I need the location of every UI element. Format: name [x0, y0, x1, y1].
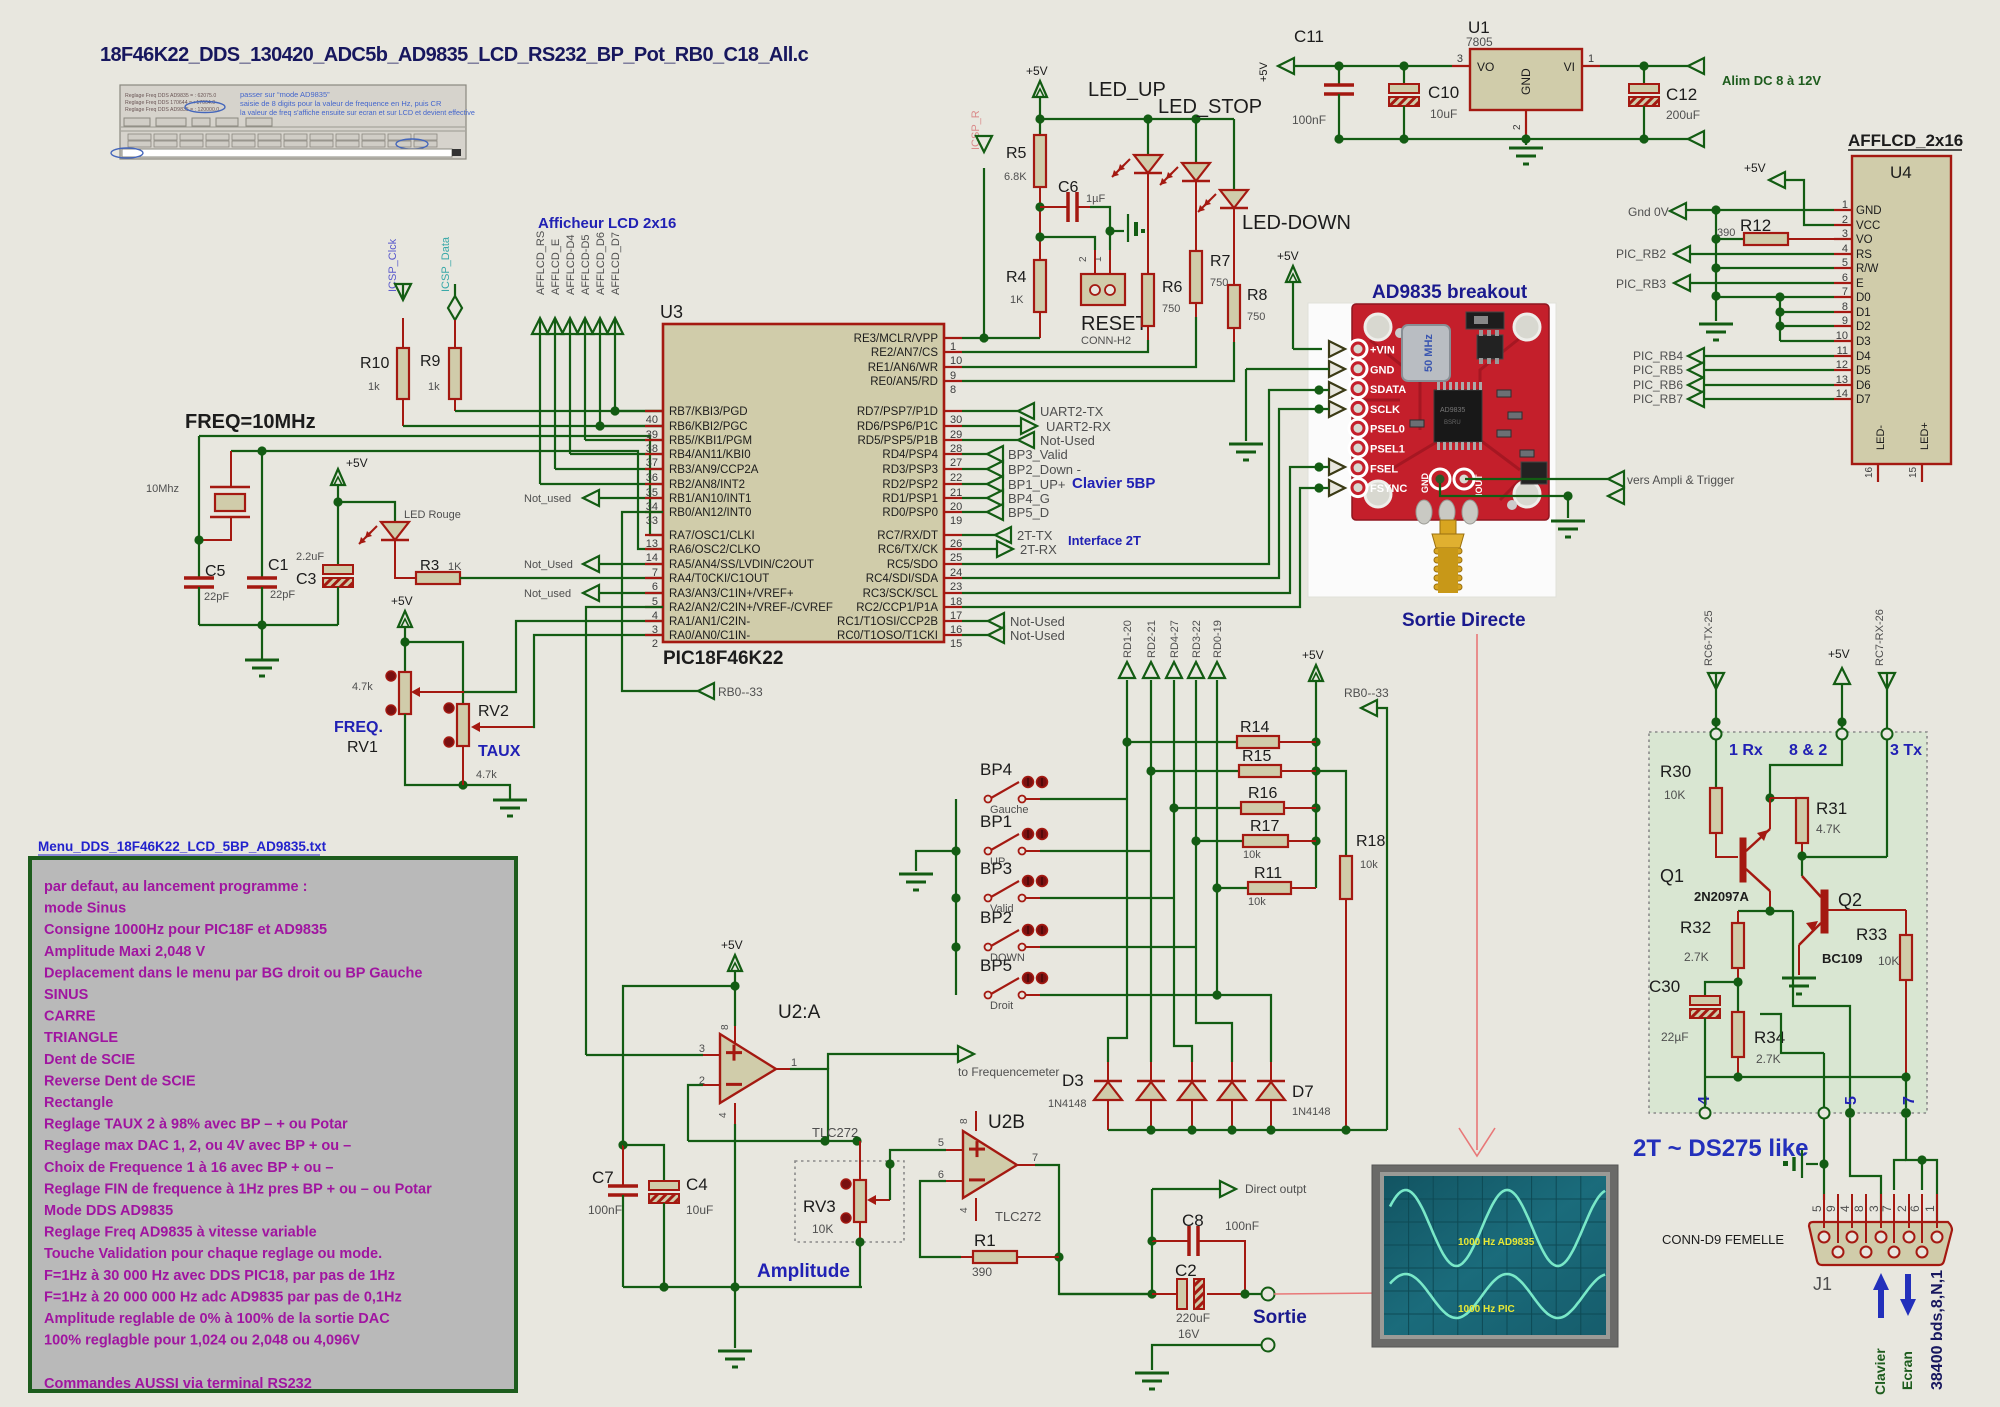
- svg-text:4.7k: 4.7k: [476, 769, 497, 781]
- svg-text:RS: RS: [1856, 249, 1872, 261]
- svg-text:11: 11: [1837, 345, 1848, 357]
- terminal Not_Used RA5: [524, 556, 663, 572]
- pin 3: [1452, 53, 1470, 66]
- wire: [1035, 97, 1044, 135]
- svg-text:RD0-19: RD0-19: [1212, 620, 1224, 658]
- svg-text:RA4/T0CKI/C1OUT: RA4/T0CKI/C1OUT: [669, 573, 769, 585]
- wire RESET pin1: [1093, 231, 1110, 274]
- wire to D3: [1108, 799, 1127, 1062]
- svg-text:2.7K: 2.7K: [1684, 950, 1709, 964]
- svg-text:R10: R10: [360, 355, 389, 372]
- svg-text:RC2/CCP1/P1A: RC2/CCP1/P1A: [856, 602, 938, 614]
- svg-text:R11: R11: [1254, 865, 1282, 882]
- wire pin3: [586, 1043, 720, 1055]
- wire: [454, 320, 456, 411]
- button BP4: [980, 760, 1127, 816]
- svg-text:5: 5: [1843, 1096, 1860, 1105]
- wire RV3 bottom: [855, 1222, 864, 1287]
- label AFFLCD_D6: [595, 232, 607, 295]
- potentiometer RV1 4.7k: [352, 671, 411, 715]
- svg-text:RA2/AN2/C2IN+/VREF-/CVREF: RA2/AN2/C2IN+/VREF-/CVREF: [669, 602, 833, 614]
- op-amp U2:A: [720, 1034, 776, 1103]
- svg-text:1K: 1K: [448, 561, 462, 573]
- wire VI: [1600, 61, 1688, 70]
- wire: [1644, 138, 1688, 140]
- wire: [1733, 968, 1742, 987]
- svg-text:Commandes AUSSI via terminal R: Commandes AUSSI via terminal RS232: [44, 1376, 312, 1392]
- svg-text:R30: R30: [1660, 762, 1691, 781]
- wire: [194, 436, 203, 578]
- wire pin4: [959, 1198, 976, 1221]
- svg-text:100nF: 100nF: [588, 1203, 622, 1217]
- svg-text:RC4/SDI/SDA: RC4/SDI/SDA: [866, 573, 939, 585]
- svg-text:PIC_RB6: PIC_RB6: [1633, 378, 1683, 392]
- diode at x=1232: [1218, 1062, 1246, 1130]
- capacitor C5 22pF: [184, 563, 229, 603]
- terminal ICSP_Clck: [395, 284, 411, 300]
- svg-text:BP2: BP2: [980, 908, 1012, 927]
- wiper RV1: [411, 687, 464, 697]
- svg-text:4: 4: [959, 1207, 970, 1213]
- PIC U3 PIC18F46K22 body: [663, 324, 944, 669]
- svg-text:Mode DDS AD9835: Mode DDS AD9835: [44, 1203, 173, 1219]
- wire R9 to RB7: [455, 406, 663, 415]
- arrow GND: [1246, 361, 1345, 377]
- svg-text:PSEL1: PSEL1: [1370, 444, 1405, 456]
- power +5V: [1026, 64, 1048, 97]
- svg-text:AFFLCD_D7: AFFLCD_D7: [610, 232, 622, 295]
- svg-text:Q2: Q2: [1838, 890, 1862, 910]
- svg-text:RD7/PSP7/P1D: RD7/PSP7/P1D: [857, 406, 938, 418]
- arrow RD0-19: [1209, 662, 1225, 678]
- svg-text:R18: R18: [1356, 833, 1385, 850]
- wire +5V to C7: [623, 986, 735, 1145]
- svg-text:J1: J1: [1813, 1274, 1832, 1294]
- label LED-DOWN: [1242, 212, 1351, 234]
- arrow SDATA wire from RC5: [962, 382, 1345, 564]
- wire: [1240, 1289, 1262, 1298]
- wire: [1737, 1057, 1739, 1077]
- wire LED rail: [1040, 114, 1234, 123]
- svg-text:1000 Hz AD9835: 1000 Hz AD9835: [1458, 1237, 1535, 1248]
- wire: [1233, 208, 1235, 285]
- svg-text:Sortie: Sortie: [1253, 1307, 1307, 1328]
- terminal to Frequencemeter: [958, 1046, 1059, 1079]
- terminal RC7-RX-26: [1879, 673, 1895, 728]
- wire R18 bottom: [1345, 899, 1347, 1130]
- svg-text:vers Ampli & Trigger: vers Ampli & Trigger: [1627, 473, 1734, 487]
- svg-text:R5: R5: [1006, 145, 1027, 162]
- svg-text:RC6-TX-25: RC6-TX-25: [1703, 610, 1715, 666]
- potentiometer RV3 10K: [803, 1179, 866, 1236]
- label Sortie Directe: [1402, 610, 1526, 631]
- svg-text:7805: 7805: [1466, 35, 1493, 49]
- port circle 4: [1700, 1077, 1711, 1119]
- svg-text:RA5/AN4/SS/LVDIN/C2OUT: RA5/AN4/SS/LVDIN/C2OUT: [669, 559, 814, 571]
- wire to frequencemeter: [828, 1054, 958, 1069]
- svg-text:7: 7: [1901, 1096, 1918, 1105]
- PIC U3 left pins RB/RA: [645, 406, 833, 650]
- svg-text:D7: D7: [1856, 394, 1871, 406]
- svg-text:LED-: LED-: [1875, 425, 1887, 450]
- wire +VIN: [1293, 282, 1322, 349]
- wire wiper to U2B+: [885, 1150, 963, 1200]
- terminal ICSP_R: [976, 136, 992, 338]
- wire: [1705, 982, 1738, 996]
- wire R30 to Q1 base: [1716, 833, 1738, 857]
- capacitor C12 200uF: [1629, 84, 1700, 122]
- svg-text:Choix de Frequence 1 à 16 ave: Choix de Frequence 1 à 16 avec BP + ou –: [44, 1160, 333, 1176]
- svg-text:100nF: 100nF: [1292, 113, 1326, 127]
- PIC U3 right pins RE/RD/RC: [837, 333, 962, 650]
- svg-text:RC7/RX/DT: RC7/RX/DT: [877, 530, 938, 542]
- svg-text:RV2: RV2: [478, 703, 509, 720]
- svg-text:27: 27: [950, 457, 962, 469]
- svg-text:RC1/T1OSI/CCP2B: RC1/T1OSI/CCP2B: [837, 616, 938, 628]
- label AFFLCD_E: [550, 239, 562, 295]
- wire 8&2 to node: [1770, 740, 1842, 798]
- label port 7: [1901, 1096, 1918, 1105]
- terminal 2T-RX: [962, 541, 1057, 557]
- label TAUX 4.7k: [476, 743, 521, 781]
- svg-text:RC7-RX-26: RC7-RX-26: [1874, 609, 1886, 666]
- svg-text:passer sur “mode AD9835”: passer sur “mode AD9835”: [240, 90, 330, 99]
- svg-text:15: 15: [950, 638, 962, 650]
- svg-text:RA3/AN3/C1IN+/VREF+: RA3/AN3/C1IN+/VREF+: [669, 588, 794, 600]
- svg-text:5: 5: [1842, 257, 1848, 269]
- wire col RD3: [1191, 680, 1200, 947]
- power +5V 2T: [1834, 668, 1850, 728]
- resistor R15: [1151, 748, 1316, 777]
- svg-text:C3: C3: [296, 571, 317, 588]
- svg-text:Rectangle: Rectangle: [44, 1095, 113, 1111]
- wire R10 to RB6: [403, 421, 663, 430]
- svg-text:D4: D4: [1856, 351, 1871, 363]
- svg-text:Ecran: Ecran: [1899, 1351, 1915, 1390]
- svg-text:2: 2: [652, 638, 658, 650]
- resistor R33 10K: [1856, 925, 1912, 980]
- LCD connector U4 body: [1852, 156, 1951, 464]
- wire +5V pullup column: [1311, 681, 1320, 888]
- svg-text:FSEL: FSEL: [1370, 463, 1398, 475]
- wire: [261, 451, 263, 578]
- svg-text:Q1: Q1: [1660, 866, 1684, 886]
- wire: [1338, 66, 1340, 85]
- svg-text:D5: D5: [1856, 365, 1871, 377]
- terminal PIC_RB3 to E: [1616, 275, 1834, 291]
- wire 3Tx column: [1886, 740, 1888, 857]
- svg-text:C8: C8: [1182, 1211, 1204, 1230]
- terminal Not_used RB1: [524, 490, 663, 506]
- svg-text:100% reglagble pour 1,024 ou 2: 100% reglagble pour 1,024 ou 2,048 ou 4,…: [44, 1333, 360, 1349]
- resistor R8 750: [1228, 285, 1268, 328]
- svg-text:C7: C7: [592, 1168, 614, 1187]
- terminal RB0--33 riser: [1361, 700, 1387, 1130]
- wire: [1195, 181, 1197, 251]
- wire bottom rail: [623, 1282, 862, 1291]
- wire AFFLCD_D7 to PIC: [607, 318, 663, 411]
- svg-text:4: 4: [1838, 1205, 1852, 1212]
- label Sortie: [1253, 1307, 1307, 1328]
- J1 pin leads: [1810, 1194, 1937, 1243]
- label ICSP_Clck: [387, 238, 399, 292]
- svg-text:PIC_RB7: PIC_RB7: [1633, 392, 1683, 406]
- svg-text:LED+: LED+: [1919, 422, 1931, 450]
- svg-text:RB0/AN12/INT0: RB0/AN12/INT0: [669, 507, 751, 519]
- svg-text:Not-Used: Not-Used: [1010, 614, 1065, 629]
- svg-text:BP4: BP4: [980, 760, 1012, 779]
- svg-text:D1: D1: [1856, 307, 1871, 319]
- svg-text:6: 6: [938, 1169, 944, 1181]
- resistor R5 6.8K: [1004, 135, 1046, 187]
- svg-text:C30: C30: [1649, 977, 1680, 996]
- label AFFLCD-D4: [565, 234, 577, 295]
- svg-text:4: 4: [718, 1112, 729, 1118]
- svg-text:14: 14: [1836, 388, 1848, 400]
- svg-text:par defaut, au lancement progr: par defaut, au lancement programme :: [44, 879, 307, 895]
- svg-text:RA0/AN0/C1IN-: RA0/AN0/C1IN-: [669, 630, 750, 642]
- wire R18 top: [1316, 771, 1346, 856]
- svg-text:R15: R15: [1242, 748, 1271, 765]
- ground: [493, 800, 527, 816]
- svg-text:22pF: 22pF: [270, 589, 295, 601]
- wire to D4: [1150, 851, 1152, 1062]
- LED D1 rouge: [359, 509, 461, 544]
- wire: [1905, 910, 1907, 935]
- arrow +VIN: [1329, 341, 1345, 357]
- power +5V: [331, 456, 368, 485]
- svg-text:TLC272: TLC272: [812, 1125, 858, 1140]
- svg-text:U3: U3: [660, 302, 683, 322]
- svg-text:LED_STOP: LED_STOP: [1158, 96, 1262, 118]
- button BP3: [980, 859, 1174, 915]
- svg-text:6: 6: [652, 581, 658, 593]
- svg-text:Dent de SCIE: Dent de SCIE: [44, 1052, 135, 1068]
- label Q1 2N2097A: [1660, 866, 1750, 904]
- label R12 390: [1717, 216, 1771, 239]
- svg-text:3 Tx: 3 Tx: [1890, 742, 1922, 759]
- terminal screenshot: [111, 85, 475, 159]
- svg-text:25: 25: [950, 552, 962, 564]
- label D7: [1292, 1082, 1331, 1118]
- svg-text:Amplitude Maxi 2,048 V: Amplitude Maxi 2,048 V: [44, 944, 205, 960]
- svg-text:10Mhz: 10Mhz: [146, 483, 179, 495]
- label Q2 BC109: [1822, 890, 1862, 966]
- svg-text:+5V: +5V: [391, 594, 413, 608]
- svg-text:+5V: +5V: [1026, 64, 1048, 78]
- label 2T ~ DS275 like: [1633, 1135, 1808, 1162]
- wire RB0 to terminal: [622, 512, 698, 691]
- wire D1 D2 D3: [1780, 312, 1834, 341]
- wire to D5: [1174, 898, 1192, 1062]
- wire Q1 emitter node: [1738, 906, 1793, 915]
- wire: [1233, 119, 1235, 190]
- svg-text:RE3/MCLR/VPP: RE3/MCLR/VPP: [854, 333, 939, 345]
- wire R6 to RE2: [962, 326, 1148, 352]
- wire to ground: [916, 851, 956, 871]
- wire 7 to pin1: [1906, 1118, 1937, 1228]
- power +5V: [721, 938, 743, 971]
- terminal GND out: [1608, 488, 1624, 504]
- wire RV3 top: [859, 1141, 861, 1180]
- svg-text:RB6/KBI2/PGC: RB6/KBI2/PGC: [669, 421, 748, 433]
- svg-text:E: E: [1856, 278, 1864, 290]
- wire pin1: [776, 1057, 797, 1069]
- port circle 3Tx: [1882, 729, 1893, 740]
- svg-text:4.7k: 4.7k: [352, 681, 373, 693]
- capacitor C1 22pF: [247, 557, 295, 601]
- svg-text:AD9835: AD9835: [1440, 407, 1465, 414]
- svg-text:33: 33: [646, 515, 658, 527]
- capacitor C30 22uF: [1649, 977, 1720, 1044]
- terminal Not-Used RD5: [962, 432, 1095, 448]
- svg-text:PIC_RB3: PIC_RB3: [1616, 277, 1666, 291]
- svg-text:RD1-20: RD1-20: [1122, 620, 1134, 658]
- diode at x=1271: [1257, 1062, 1285, 1130]
- svg-text:BP2_Down -: BP2_Down -: [1008, 462, 1081, 477]
- svg-text:RB1/AN10/INT1: RB1/AN10/INT1: [669, 493, 751, 505]
- svg-text:FREQ=10MHz: FREQ=10MHz: [185, 411, 316, 433]
- svg-text:10K: 10K: [1664, 788, 1685, 802]
- svg-text:1N4148: 1N4148: [1292, 1106, 1331, 1118]
- svg-text:la valeur de freq s'affiche en: la valeur de freq s'affiche ensuite sur …: [240, 108, 475, 117]
- svg-text:Not-Used: Not-Used: [1040, 433, 1095, 448]
- svg-text:PIC18F46K22: PIC18F46K22: [663, 648, 783, 669]
- svg-text:14: 14: [646, 552, 658, 564]
- svg-text:AFFLCD_E: AFFLCD_E: [550, 239, 562, 295]
- wire gnd to pin5: [1819, 1118, 1828, 1200]
- svg-text:Amplitude: Amplitude: [757, 1261, 850, 1282]
- label RC7-RX-26: [1874, 609, 1886, 666]
- svg-text:C12: C12: [1666, 85, 1697, 104]
- junction: [257, 446, 266, 455]
- wire: [1770, 797, 1802, 799]
- wire: [1403, 66, 1405, 84]
- svg-text:2N2097A: 2N2097A: [1694, 889, 1750, 904]
- svg-text:VO: VO: [1856, 234, 1873, 246]
- wire RV1 bottom: [405, 714, 510, 800]
- svg-text:BP1: BP1: [980, 812, 1012, 831]
- svg-text:RA7/OSC1/CLKI: RA7/OSC1/CLKI: [669, 530, 755, 542]
- label RD0-19: [1212, 620, 1224, 658]
- svg-text:AD9835 breakout: AD9835 breakout: [1372, 282, 1528, 303]
- svg-text:Interface 2T: Interface 2T: [1068, 533, 1141, 548]
- svg-text:C10: C10: [1428, 83, 1459, 102]
- svg-text:R7: R7: [1210, 253, 1231, 270]
- svg-text:1: 1: [1588, 53, 1594, 65]
- svg-text:C11: C11: [1294, 27, 1324, 46]
- wire gnd exit: [1760, 1014, 1824, 1108]
- svg-text:U2B: U2B: [988, 1112, 1025, 1133]
- svg-text:LED Rouge: LED Rouge: [404, 509, 461, 521]
- svg-text:2T-RX: 2T-RX: [1020, 542, 1057, 557]
- resistor R10: [360, 348, 409, 399]
- svg-text:8 & 2: 8 & 2: [1789, 742, 1827, 759]
- dotted box RV3: [795, 1161, 904, 1242]
- arrow RD2-21: [1143, 662, 1159, 678]
- svg-text:RA6/OSC2/CLKO: RA6/OSC2/CLKO: [669, 544, 760, 556]
- svg-text:VO: VO: [1477, 60, 1494, 74]
- svg-text:TLC272: TLC272: [995, 1209, 1041, 1224]
- menu text lines: [44, 879, 432, 1392]
- svg-text:1K: 1K: [1010, 294, 1024, 306]
- wire: [1643, 106, 1645, 139]
- resistor R7 750: [1190, 251, 1231, 303]
- svg-text:2T-TX: 2T-TX: [1017, 528, 1053, 543]
- capacitor C10 10uF: [1389, 83, 1459, 121]
- svg-text:C6: C6: [1058, 179, 1079, 196]
- svg-text:Not_Used: Not_Used: [524, 559, 573, 571]
- terminal Sortie gnd: [1152, 1339, 1275, 1371]
- svg-text:2: 2: [1842, 214, 1848, 226]
- svg-text:RE0/AN5/RD: RE0/AN5/RD: [870, 376, 938, 388]
- wire: [622, 1195, 624, 1287]
- svg-text:PIC_RB2: PIC_RB2: [1616, 247, 1666, 261]
- wire MCLR: [962, 333, 1040, 342]
- svg-text:RC0/T1OSO/T1CKI: RC0/T1OSO/T1CKI: [837, 630, 938, 642]
- svg-text:10k: 10k: [1360, 859, 1378, 871]
- svg-text:R9: R9: [420, 353, 441, 370]
- wire R31 node: [1802, 856, 1887, 858]
- button BP1: [980, 812, 1151, 868]
- port 7: [1901, 1108, 1911, 1118]
- svg-text:RV3: RV3: [803, 1197, 836, 1216]
- svg-text:GND: GND: [1370, 364, 1395, 376]
- button BP2: [980, 908, 1196, 964]
- terminal PIC_RB4: [1633, 348, 1834, 364]
- arrow Clavier: [1872, 1273, 1889, 1395]
- svg-text:19: 19: [950, 515, 962, 527]
- svg-text:SDATA: SDATA: [1370, 384, 1406, 396]
- svg-text:+5V: +5V: [1258, 61, 1270, 82]
- ground: [1782, 978, 1816, 994]
- svg-text:8: 8: [1852, 1205, 1866, 1212]
- svg-text:FREQ.: FREQ.: [334, 719, 383, 736]
- resistor R12: [1716, 233, 1834, 245]
- svg-text:R4: R4: [1006, 269, 1027, 286]
- svg-text:1000 Hz PIC: 1000 Hz PIC: [1458, 1304, 1515, 1315]
- wire to D7: [1212, 990, 1271, 1062]
- svg-text:Not_used: Not_used: [524, 588, 571, 600]
- wire: [1035, 187, 1044, 260]
- wire GND: [1686, 205, 1834, 214]
- svg-text:4.7K: 4.7K: [1816, 822, 1841, 836]
- svg-text:8: 8: [959, 1118, 970, 1124]
- wire VO rail: [1294, 61, 1452, 70]
- arrow RD1-20: [1119, 662, 1135, 678]
- svg-text:+5V: +5V: [346, 456, 368, 470]
- svg-text:10K: 10K: [812, 1222, 833, 1236]
- svg-text:Droit: Droit: [990, 1000, 1013, 1012]
- svg-text:7: 7: [1842, 286, 1848, 298]
- resistor R16: [1174, 785, 1316, 814]
- svg-text:UART2-TX: UART2-TX: [1040, 404, 1104, 419]
- wire: [1039, 312, 1041, 338]
- svg-text:2: 2: [1078, 256, 1089, 262]
- svg-text:RD6/PSP6/P1C: RD6/PSP6/P1C: [857, 421, 938, 433]
- label TLC272: [812, 1125, 858, 1140]
- port circle 1Rx: [1711, 729, 1722, 740]
- svg-text:BSRU: BSRU: [1444, 420, 1461, 426]
- arrow RD3-22: [1188, 662, 1204, 678]
- svg-text:16: 16: [1864, 466, 1875, 478]
- wire R7 to RE1: [962, 303, 1196, 367]
- svg-text:RE2/AN7/CS: RE2/AN7/CS: [871, 347, 938, 359]
- svg-text:10: 10: [950, 355, 962, 367]
- power +5V: [391, 594, 413, 627]
- label RD2-21: [1146, 620, 1158, 658]
- LED LED_UP: [1112, 155, 1162, 177]
